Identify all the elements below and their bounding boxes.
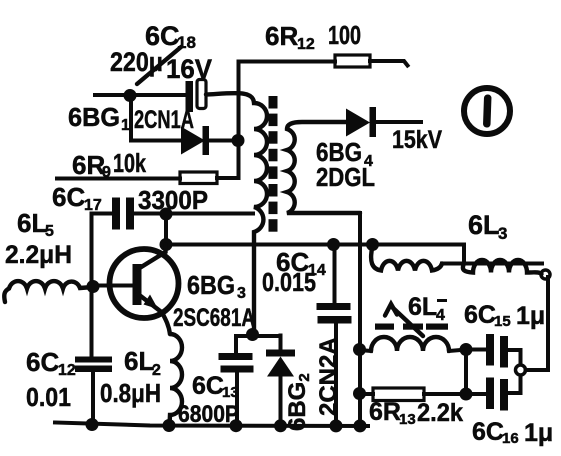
node junction rail (169,425.5) [163,419,176,432]
label 6C17 3300P [52,182,208,215]
inductor L2 (6L2 0.8uH) [170,334,183,426]
capacitor C12 (0.01) [75,357,112,426]
transistor Q 6BG3 2SC681A [110,245,179,335]
label 6C15 1u [464,301,545,330]
svg-text:1: 1 [121,117,130,134]
node junction at (359.5,393.5) [353,387,366,400]
svg-text:13: 13 [399,411,416,428]
diode 6BG4 2DGL 15kV [346,107,421,137]
label 6BG1 [68,102,130,134]
ground rail bottom [55,423,368,427]
svg-text:2CN2A: 2CN2A [315,337,342,416]
wire vertical bus x=238.5 [237,62,241,178]
capacitor C17 (3300P) [92,198,167,230]
node junction at (466,349.5) [460,343,473,356]
svg-text:6L: 6L [468,210,500,240]
capacitor C18 (220u/16V electrolytic) [186,80,207,113]
label 220u/16V [110,47,212,84]
capacitor C14 (0.015) [317,245,352,426]
terminal node C15/C16 [516,365,526,375]
svg-text:2DGL: 2DGL [316,162,375,192]
svg-text:6C: 6C [52,182,85,212]
svg-text:6R: 6R [72,150,105,180]
label 6C12 0.01 [26,347,76,412]
svg-text:12: 12 [297,36,315,53]
label 6C18 [145,21,196,52]
capacitor C16 (1u) [466,376,521,411]
node junction at (93,286.5) [87,280,100,293]
node junction at (359.5,349.5) [353,343,366,356]
node junction at (466,394) [460,388,473,401]
label 6L3 [468,210,507,243]
capacitor C15 (1u) [466,334,521,368]
svg-text:6800P: 6800P [178,401,239,428]
svg-text:9: 9 [102,164,111,181]
terminal symbol circled I [464,88,510,134]
svg-text:13: 13 [222,384,239,401]
svg-text:12: 12 [58,362,76,379]
svg-text:6C: 6C [472,418,504,446]
svg-text:6L: 6L [124,346,154,376]
label 6BG4 2DGL [316,137,375,192]
node junction rail (280.5,425.8) [274,419,287,432]
label 6BG3 2SC681A [173,270,255,332]
node junction at (166,244.5) [160,238,173,251]
svg-text:6R: 6R [369,398,401,426]
label 6R12 100 [265,20,361,53]
wire terminal link to L3 [526,277,549,370]
node junction at (166,214) [160,208,173,221]
wire base lead [93,284,131,288]
svg-text:3: 3 [498,224,507,243]
svg-text:2SC681A: 2SC681A [173,304,255,332]
inductor L3 section 2 [463,260,542,274]
node junction at (333.5,244.5) [327,238,340,251]
capacitor C13 (6800P) [219,336,281,426]
wire right vertical bus x=360 [358,213,362,426]
terminal node L3 right [541,270,550,279]
svg-text:3: 3 [237,285,246,302]
node junction rail (360,425.9) [354,419,367,432]
svg-text:2.2k: 2.2k [417,399,463,427]
label 6L5 2.2uH [5,208,72,269]
svg-text:1μ: 1μ [516,302,545,330]
svg-text:10k: 10k [113,148,146,178]
svg-text:15kV: 15kV [392,126,442,154]
node junction at (130,95) [124,89,137,102]
svg-text:4: 4 [436,307,445,324]
diode 6BG1 2CN1A [181,126,238,155]
resistor R12 (6R12 100) [239,55,408,67]
node junction at (252.5,334.5) [246,328,259,341]
label 6R9 10k [72,148,146,181]
svg-text:6BG: 6BG [187,270,235,300]
wire L3 top link [442,245,542,264]
wire left vertical bus x=93 [90,214,94,357]
svg-text:6BG: 6BG [68,102,120,132]
svg-text:220μ: 220μ [110,47,163,77]
wire C18 to transformer primary + primary winding + down lead [206,93,267,334]
label 6C14 0.015 [262,247,326,297]
node junction rail (236,425.7) [230,419,243,432]
svg-text:6C: 6C [26,347,59,377]
resistor R13 (6R13 2.2k) [360,388,467,401]
label 6C13 6800P [178,372,239,428]
diode 6BG2 2CN2A [266,336,295,426]
wire vertical x=466 [464,350,468,395]
svg-text:6BG2: 6BG2 [284,373,313,431]
label 6L4 [408,293,447,324]
transformer secondary winding [287,122,360,213]
svg-text:6C: 6C [192,372,224,400]
svg-text:3300P: 3300P [138,185,208,215]
svg-text:15: 15 [494,313,511,330]
svg-text:6L: 6L [17,208,47,238]
wire top-left input to C18 [95,93,186,97]
label 6C16 1u [472,418,553,447]
svg-text:0.01: 0.01 [26,382,71,412]
node junction at (238,140) [232,134,245,147]
svg-text:6R: 6R [265,21,298,51]
svg-text:1μ: 1μ [524,419,553,447]
resistor R9 (6R9 10k) [57,172,239,184]
inductor L4 (variable) [360,304,467,351]
inductor L5 (6L5 2.2uH) [4,281,93,302]
svg-text:2CN1A: 2CN1A [134,106,194,134]
svg-text:17: 17 [84,197,102,214]
svg-text:2.2μH: 2.2μH [5,241,72,269]
svg-text:5: 5 [45,223,54,240]
node junction at (372.5,244.5) [366,238,379,251]
node junction rail (336,425.9) [330,419,343,432]
svg-text:6L: 6L [408,293,437,321]
wire junction down to collector node [164,214,168,245]
svg-text:6C: 6C [464,301,496,329]
wire C17 to transformer primary tap [166,212,253,216]
svg-text:0.015: 0.015 [262,267,316,297]
wire junction down to diode 6BG1 [131,97,181,141]
svg-text:0.8μH: 0.8μH [100,378,161,408]
node junction rail (92,424) [86,418,99,431]
label 6R13 2.2k [369,398,463,428]
svg-text:100: 100 [328,20,361,50]
svg-text:2: 2 [152,362,161,379]
transformer core [269,96,278,232]
svg-text:16: 16 [502,430,519,447]
wire collector rail y=244.5 [166,243,464,247]
svg-text:16V: 16V [166,54,212,84]
label 6L2 0.8uH [100,346,161,408]
inductor L3 section 1 [371,246,442,271]
